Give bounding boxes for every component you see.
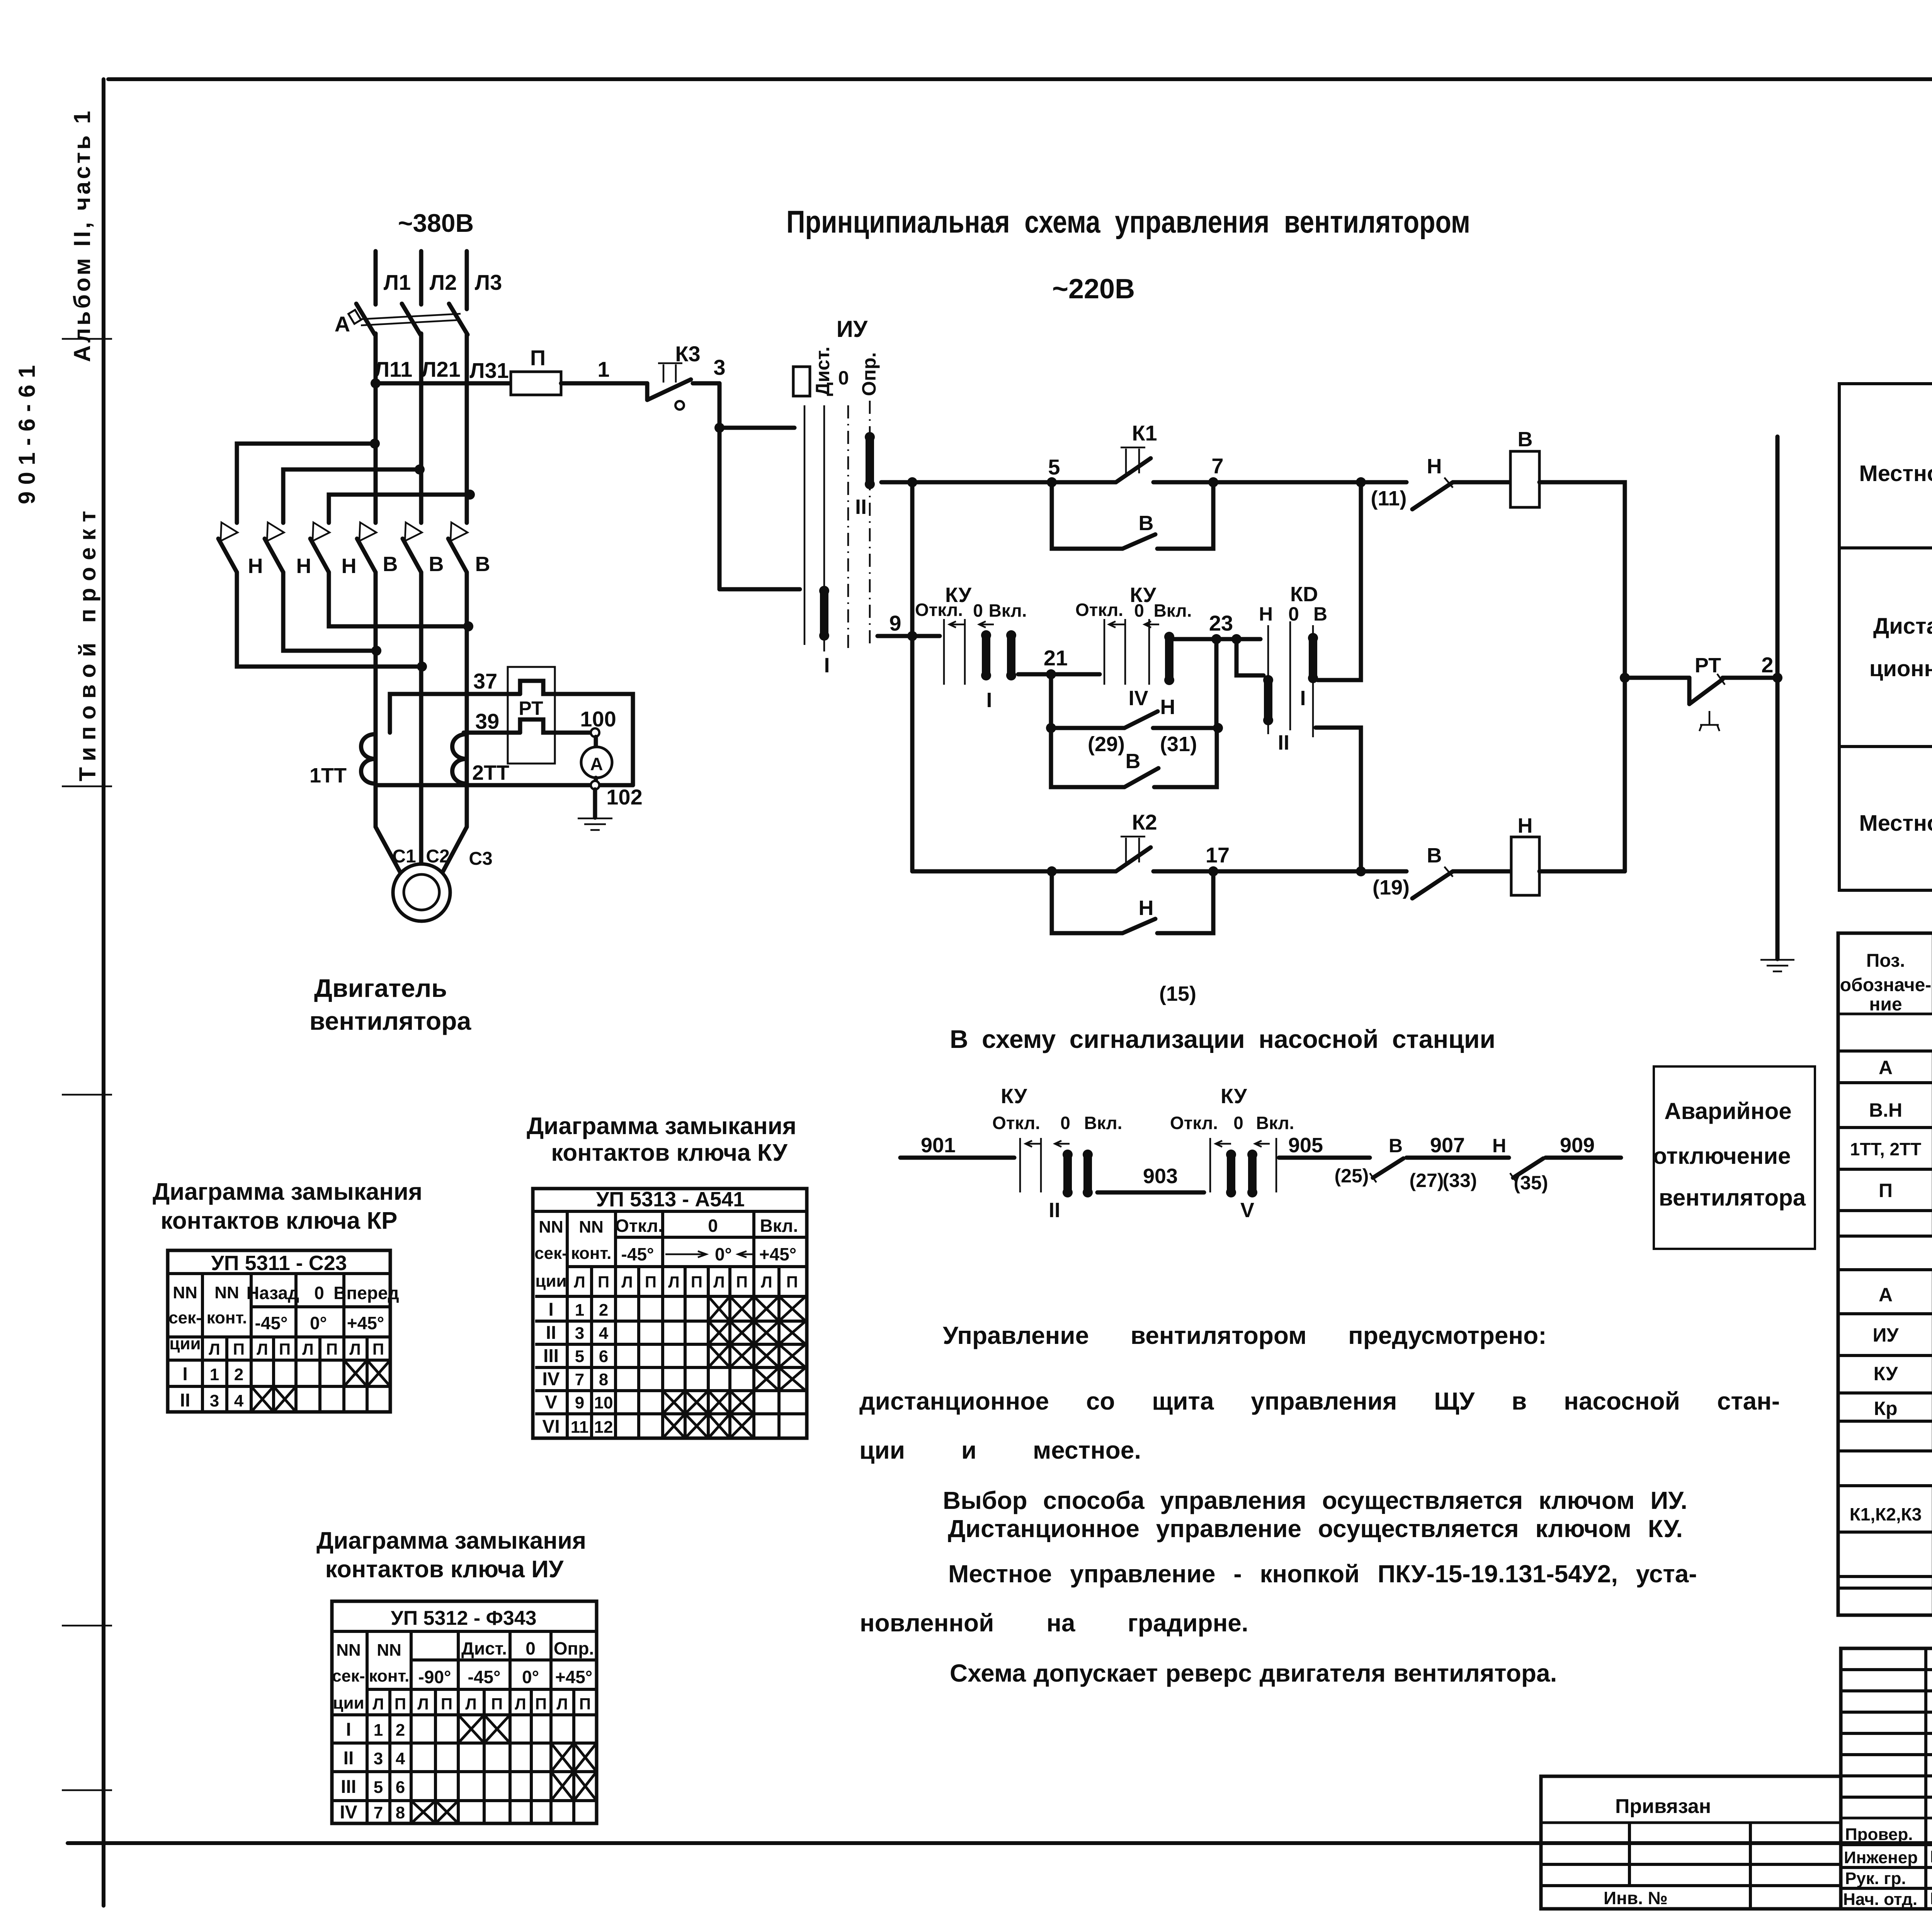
contact H interlock (11) bbox=[1412, 478, 1453, 509]
switch KR (KD) section bbox=[1259, 583, 1327, 754]
svg-text:Н: Н bbox=[1492, 1135, 1506, 1156]
wire 39 secondary bbox=[464, 731, 520, 735]
svg-text:0: 0 bbox=[708, 1216, 718, 1236]
svg-text:КУ: КУ bbox=[1221, 1085, 1247, 1108]
svg-text:В: В bbox=[429, 553, 444, 576]
svg-text:I: I bbox=[824, 654, 830, 677]
svg-text:УП 5313 - А541: УП 5313 - А541 bbox=[596, 1188, 745, 1211]
svg-text:Схема допускает реверс двигате: Схема допускает реверс двигателя вентиля… bbox=[950, 1659, 1557, 1687]
table control-mode outer box bbox=[1839, 384, 1932, 890]
svg-text:V: V bbox=[545, 1392, 557, 1413]
switch signal g1 bar 1 bbox=[1063, 1150, 1073, 1197]
svg-text:102: 102 bbox=[606, 785, 642, 809]
switch KU signal group II bbox=[992, 1085, 1122, 1222]
svg-text:Двигатель: Двигатель bbox=[314, 974, 447, 1002]
svg-text:21: 21 bbox=[1044, 646, 1068, 670]
svg-text:Аварийное: Аварийное bbox=[1664, 1098, 1791, 1124]
tick mark left margin 5 bbox=[62, 1789, 112, 1791]
svg-text:9: 9 bbox=[575, 1393, 584, 1412]
svg-text:II: II bbox=[344, 1748, 354, 1769]
svg-text:контактов ключа ИУ: контактов ключа ИУ bbox=[325, 1556, 564, 1583]
svg-text:Выбор способа управления осуще: Выбор способа управления осуществляется … bbox=[943, 1486, 1687, 1514]
svg-text:Опр.: Опр. bbox=[554, 1638, 594, 1658]
wire: drawing frame left border bbox=[102, 79, 105, 1906]
wire: drawing frame bottom border bbox=[68, 1841, 1932, 1845]
breaker A trip element bbox=[349, 310, 361, 324]
wire H self-hold branch bbox=[1052, 871, 1213, 933]
relay RT heater element lower bbox=[520, 719, 555, 733]
svg-text:4: 4 bbox=[234, 1391, 244, 1410]
junction left bus top bbox=[907, 477, 917, 487]
svg-text:В схему сигнализации насосной: В схему сигнализации насосной станции bbox=[950, 1025, 1495, 1053]
contactor K1 main contact bbox=[1116, 447, 1151, 482]
svg-text:0: 0 bbox=[314, 1283, 324, 1303]
wire to B coil bbox=[1453, 480, 1510, 485]
relay RT box bbox=[508, 667, 555, 764]
svg-text:сек-: сек- bbox=[168, 1308, 202, 1327]
wire motor lead column 2 bbox=[419, 572, 423, 865]
junction on phase 1 at control tap bbox=[371, 378, 381, 388]
svg-text:дистанционное со щита управлен: дистанционное со щита управления ЩУ в на… bbox=[859, 1387, 1780, 1415]
wire motor lead column 3 bbox=[465, 572, 469, 827]
svg-text:КУ: КУ bbox=[1874, 1363, 1898, 1384]
junction node 21 bbox=[1046, 669, 1056, 679]
svg-text:контактов ключа КУ: контактов ключа КУ bbox=[551, 1139, 788, 1166]
svg-text:Л: Л bbox=[668, 1273, 679, 1291]
svg-text:12: 12 bbox=[594, 1418, 613, 1437]
wire number 9 line bbox=[878, 634, 940, 638]
wire: drawing frame top border bbox=[108, 77, 1932, 81]
svg-text:0: 0 bbox=[1060, 1113, 1070, 1133]
switch IU contact bar II bbox=[865, 432, 875, 489]
wire N3 supply cross link bbox=[329, 495, 470, 523]
svg-text:1: 1 bbox=[575, 1301, 584, 1320]
svg-text:Н: Н bbox=[1518, 814, 1533, 837]
svg-text:3: 3 bbox=[210, 1391, 219, 1410]
svg-text:Привязан: Привязан bbox=[1615, 1795, 1711, 1818]
svg-text:сек-: сек- bbox=[332, 1667, 365, 1685]
svg-text:Опр.: Опр. bbox=[858, 352, 880, 396]
wire ammeter top bbox=[594, 737, 598, 747]
svg-text:Диаграмма замыкания: Диаграмма замыкания bbox=[316, 1527, 586, 1554]
wire H pole 2 load side bbox=[283, 572, 376, 651]
wire select line B lower bbox=[1051, 728, 1217, 787]
svg-text:II: II bbox=[1049, 1199, 1060, 1222]
svg-text:РТ: РТ bbox=[1695, 654, 1721, 677]
svg-text:вентилятора: вентилятора bbox=[1659, 1185, 1806, 1211]
wire down from node 3 bbox=[718, 383, 722, 589]
wire control branch top bbox=[881, 480, 1116, 485]
svg-text:-45°: -45° bbox=[621, 1244, 654, 1264]
svg-text:П: П bbox=[598, 1273, 609, 1291]
svg-text:Н: Н bbox=[1139, 896, 1154, 920]
contact B interlock (19) bbox=[1412, 867, 1453, 898]
svg-text:ции: ции bbox=[333, 1694, 364, 1713]
svg-text:Л: Л bbox=[257, 1340, 268, 1358]
wire 37 to loop right bbox=[555, 694, 633, 785]
svg-text:(15): (15) bbox=[1159, 982, 1196, 1005]
svg-text:VI: VI bbox=[542, 1417, 560, 1437]
svg-text:NN: NN bbox=[377, 1641, 401, 1660]
wire 102 bottom loop bbox=[376, 783, 633, 787]
svg-text:КУ: КУ bbox=[1001, 1085, 1027, 1108]
svg-text:Назад: Назад bbox=[247, 1283, 299, 1303]
table parts list bbox=[1838, 933, 1932, 1615]
wire from select up to 23 line bbox=[1214, 639, 1219, 728]
svg-text:(29): (29) bbox=[1088, 733, 1125, 756]
svg-text:Л3: Л3 bbox=[475, 270, 502, 294]
svg-text:П: П bbox=[491, 1695, 503, 1713]
svg-text:~220В: ~220В bbox=[1052, 274, 1135, 304]
wire stub bottom to IU bbox=[719, 587, 800, 592]
svg-text:К1,К2,К3: К1,К2,К3 bbox=[1850, 1504, 1922, 1524]
wire 901 bbox=[900, 1156, 1014, 1160]
svg-text:новленной на градирне.: новленной на градирне. bbox=[860, 1609, 1248, 1637]
switch IU rail line 3 (dash-dot) bbox=[847, 405, 849, 651]
wire phase L3 incoming bbox=[465, 251, 469, 309]
table title block outer bbox=[1841, 1648, 1932, 1909]
svg-text:905: 905 bbox=[1288, 1134, 1323, 1157]
svg-text:Л: Л bbox=[574, 1273, 585, 1291]
svg-text:П: П bbox=[326, 1340, 338, 1358]
wire jog to KR H bar bbox=[1236, 639, 1264, 675]
svg-text:Вкл.: Вкл. bbox=[989, 600, 1027, 621]
contact B auxiliary (self hold) bbox=[1122, 534, 1155, 549]
emergency shutdown box bbox=[1654, 1066, 1815, 1249]
svg-text:17: 17 bbox=[1206, 843, 1230, 867]
junction N3 supply on phase3 bbox=[465, 490, 475, 500]
svg-text:(35): (35) bbox=[1514, 1172, 1548, 1194]
svg-text:П: П bbox=[1879, 1180, 1893, 1201]
svg-text:В: В bbox=[1126, 750, 1141, 773]
svg-text:Л: Л bbox=[621, 1273, 633, 1291]
svg-text:Н: Н bbox=[1259, 603, 1273, 625]
svg-text:Рук. гр.: Рук. гр. bbox=[1845, 1869, 1906, 1888]
svg-text:В: В bbox=[1313, 603, 1327, 625]
switch KU group 2 bbox=[1075, 583, 1192, 710]
switch IU rail line 4 (dash-dot) bbox=[869, 401, 871, 647]
switch IU rail line 1 bbox=[804, 405, 806, 645]
svg-text:IV: IV bbox=[340, 1802, 357, 1823]
contactor B blade pole 1 bbox=[357, 539, 376, 572]
svg-text:NN: NN bbox=[579, 1218, 604, 1236]
svg-text:А: А bbox=[590, 754, 603, 774]
svg-text:П: П bbox=[441, 1695, 452, 1713]
switch KU group 1 bbox=[915, 583, 1027, 712]
wire left control bus bbox=[910, 482, 915, 871]
svg-text:7: 7 bbox=[374, 1803, 383, 1822]
svg-text:П: П bbox=[691, 1273, 702, 1291]
svg-text:Управление вентилятором пред: Управление вентилятором предусмотрено: bbox=[943, 1321, 1547, 1349]
wire 39 to terminal 100 bbox=[555, 731, 592, 735]
junction on node-3 drop bbox=[714, 423, 724, 433]
wire 903 bbox=[1097, 1190, 1204, 1195]
switch KU g1 arrow 1 bbox=[949, 621, 966, 628]
svg-text:К1: К1 bbox=[1132, 421, 1157, 445]
svg-text:2: 2 bbox=[599, 1301, 608, 1320]
svg-text:Л: Л bbox=[556, 1695, 568, 1713]
svg-text:Л: Л bbox=[209, 1340, 220, 1358]
svg-text:Л: Л bbox=[761, 1273, 772, 1291]
svg-text:903: 903 bbox=[1143, 1165, 1178, 1188]
switch KU g1 arrow 2 bbox=[979, 621, 994, 628]
junction right drop at node 2 line bbox=[1620, 673, 1630, 683]
switch signal g1 rail 2 bbox=[1040, 1138, 1042, 1192]
svg-text:отключение: отключение bbox=[1653, 1143, 1791, 1169]
svg-text:0: 0 bbox=[1134, 600, 1144, 621]
switch signal g2 rail 2 bbox=[1276, 1138, 1277, 1192]
switch signal g2 bar 1 bbox=[1226, 1150, 1236, 1197]
junction N2 supply on phase2 bbox=[415, 464, 425, 474]
svg-text:IV: IV bbox=[542, 1369, 560, 1389]
svg-text:В: В bbox=[1518, 428, 1533, 451]
svg-text:NN: NN bbox=[539, 1218, 563, 1236]
svg-text:Н: Н bbox=[1160, 696, 1175, 719]
svg-text:23: 23 bbox=[1209, 611, 1233, 635]
switch signal g1 bar 2 bbox=[1083, 1150, 1093, 1197]
svg-text:В: В bbox=[1427, 844, 1442, 867]
svg-text:К3: К3 bbox=[675, 342, 700, 366]
svg-text:Нач. отд.: Нач. отд. bbox=[1843, 1890, 1917, 1909]
svg-text:3: 3 bbox=[374, 1749, 383, 1768]
switch signal g1 arrow 2 bbox=[1055, 1141, 1070, 1147]
svg-text:Л21: Л21 bbox=[421, 357, 461, 381]
svg-text:(31): (31) bbox=[1160, 733, 1197, 756]
svg-text:Альбом II, часть 1: Альбом II, часть 1 bbox=[69, 111, 95, 362]
svg-text:0: 0 bbox=[973, 600, 983, 621]
wire motor lead 1 diagonal bbox=[376, 827, 400, 872]
svg-text:А: А bbox=[1879, 1284, 1893, 1306]
junction at select line left bbox=[1046, 723, 1056, 733]
svg-text:Н: Н bbox=[342, 554, 357, 578]
junction node 7 bbox=[1208, 477, 1218, 487]
svg-text:П: П bbox=[530, 345, 546, 370]
svg-text:0°: 0° bbox=[310, 1313, 327, 1333]
wire control feed line 1 bbox=[376, 381, 511, 386]
wire to H coil bbox=[1453, 869, 1511, 874]
wire 907 bbox=[1406, 1156, 1509, 1160]
switch KU g2 contact bar IV bbox=[1164, 632, 1174, 685]
switch KR rail H bbox=[1267, 625, 1269, 734]
svg-text:ИУ: ИУ bbox=[1872, 1324, 1899, 1346]
svg-text:П: П bbox=[736, 1273, 748, 1291]
ground symbol neutral bbox=[1760, 960, 1794, 971]
coil H bbox=[1511, 837, 1539, 895]
svg-text:NN: NN bbox=[173, 1283, 197, 1302]
switch KR contact bar H (section II) bbox=[1263, 675, 1273, 725]
wire 909 bbox=[1546, 1156, 1621, 1160]
svg-text:Инв. №: Инв. № bbox=[1604, 1888, 1668, 1908]
svg-text:Вкл.: Вкл. bbox=[1084, 1113, 1122, 1133]
svg-text:901: 901 bbox=[921, 1134, 956, 1157]
svg-text:Откл.: Откл. bbox=[992, 1113, 1040, 1133]
svg-text:Л: Л bbox=[417, 1695, 429, 1713]
svg-text:К2: К2 bbox=[1132, 810, 1157, 834]
svg-text:Попловская: Попловская bbox=[1930, 1847, 1932, 1866]
svg-text:Л: Л bbox=[349, 1340, 361, 1358]
wire branch bottom after K2 bbox=[1153, 869, 1406, 874]
wire node21 down to H/B selects bbox=[1049, 674, 1053, 728]
switch KU g1 rail 2 bbox=[964, 619, 966, 685]
svg-text:П: П bbox=[535, 1695, 547, 1713]
svg-text:В.Н: В.Н bbox=[1869, 1099, 1902, 1121]
svg-text:6: 6 bbox=[396, 1778, 405, 1797]
wire ammeter bottom bbox=[594, 778, 598, 781]
svg-text:II: II bbox=[180, 1390, 190, 1411]
wire stub to IU contact I feed bbox=[719, 426, 794, 430]
wire H pole 1 load side bbox=[237, 572, 422, 667]
junction H3 load on phase3 column bbox=[463, 621, 473, 631]
breaker A linkage bar bbox=[361, 314, 461, 325]
svg-text:8: 8 bbox=[599, 1370, 608, 1389]
junction N1 supply on phase1 bbox=[370, 439, 380, 449]
svg-text:(27): (27) bbox=[1410, 1170, 1444, 1191]
svg-text:II: II bbox=[855, 495, 867, 519]
svg-text:Дистанционное управление осуще: Дистанционное управление осуществляется … bbox=[948, 1515, 1683, 1543]
contactor B blade pole 2 bbox=[403, 539, 421, 572]
svg-text:7: 7 bbox=[1211, 454, 1223, 478]
wire node 2 line right bbox=[1723, 676, 1777, 680]
svg-text:конт.: конт. bbox=[369, 1667, 410, 1685]
svg-text:Н: Н bbox=[1427, 455, 1442, 478]
contact H select (29)-(31) bbox=[1124, 711, 1158, 728]
svg-text:0: 0 bbox=[1233, 1113, 1243, 1133]
junction H2 load on phase1 column bbox=[371, 646, 381, 656]
table control-mode row separator 1 bbox=[1839, 546, 1932, 549]
svg-text:А: А bbox=[1879, 1057, 1893, 1078]
svg-text:5: 5 bbox=[575, 1347, 584, 1366]
contact fixed terminals (arrow chevrons) for six poles bbox=[221, 522, 468, 541]
switch signal g2 arrow 2 bbox=[1255, 1141, 1270, 1147]
contact RT thermal bbox=[1689, 674, 1725, 731]
switch signal g2 bar 2 bbox=[1247, 1150, 1257, 1197]
junction at select line right bbox=[1213, 723, 1223, 733]
svg-text:В: В bbox=[475, 553, 490, 576]
table privyazan box bbox=[1541, 1776, 1841, 1909]
svg-text:Л: Л bbox=[372, 1695, 384, 1713]
motor M outer circle bbox=[393, 864, 450, 921]
svg-text:7: 7 bbox=[575, 1370, 584, 1389]
svg-text:Местное управление - кнопкой П: Местное управление - кнопкой ПКУ-15-19.1… bbox=[948, 1560, 1697, 1588]
wire control branch bottom K2 bbox=[912, 869, 1116, 874]
junction at (11) node bbox=[1356, 477, 1366, 487]
svg-text:Н: Н bbox=[248, 554, 263, 578]
svg-text:10: 10 bbox=[594, 1393, 613, 1412]
wire after K3 bbox=[693, 381, 719, 386]
ammeter A bbox=[581, 747, 612, 778]
svg-text:Л2: Л2 bbox=[430, 270, 457, 294]
svg-text:Кр: Кр bbox=[1874, 1398, 1897, 1419]
wire H coil to right drop bbox=[1539, 869, 1625, 874]
switch signal g2 rail 1 bbox=[1209, 1138, 1211, 1192]
wire phase L2 incoming bbox=[419, 251, 423, 304]
table KU diagram bbox=[533, 1188, 807, 1438]
switch KU g2 rail 1 bbox=[1104, 619, 1105, 685]
switch KR contact bar B (section I) bbox=[1308, 633, 1318, 683]
svg-text:909: 909 bbox=[1560, 1134, 1595, 1157]
table control-mode row separator 2 bbox=[1839, 745, 1932, 748]
svg-text:II: II bbox=[546, 1323, 556, 1343]
svg-text:Л1: Л1 bbox=[384, 270, 411, 294]
switch signal g1 rail 1 bbox=[1019, 1138, 1021, 1192]
svg-text:вентилятора: вентилятора bbox=[310, 1007, 472, 1035]
contact B select bbox=[1124, 768, 1158, 787]
svg-text:+45°: +45° bbox=[555, 1667, 592, 1687]
motor M inner circle bbox=[404, 874, 439, 910]
switch IU contact bar I bbox=[819, 586, 829, 641]
svg-text:П: П bbox=[372, 1340, 384, 1358]
table IU diagram bbox=[332, 1601, 597, 1823]
wire 37 secondary bbox=[390, 694, 520, 733]
svg-text:1: 1 bbox=[597, 357, 609, 381]
svg-text:0°: 0° bbox=[522, 1667, 539, 1687]
svg-text:1ТТ: 1ТТ bbox=[310, 764, 347, 787]
svg-text:(25): (25) bbox=[1335, 1165, 1369, 1187]
contact H auxiliary (self hold) bbox=[1122, 919, 1155, 933]
svg-text:2: 2 bbox=[234, 1365, 243, 1384]
svg-text:11: 11 bbox=[571, 1418, 589, 1437]
svg-text:~380В: ~380В bbox=[398, 209, 474, 237]
wire N2 supply cross link bbox=[283, 469, 420, 523]
svg-text:Местное: Местное bbox=[1859, 811, 1932, 836]
fuse P bbox=[511, 372, 561, 395]
svg-text:УП 5311 - С23: УП 5311 - С23 bbox=[211, 1252, 347, 1275]
svg-text:Дист.: Дист. bbox=[812, 347, 833, 396]
svg-text:В: В bbox=[383, 553, 398, 576]
svg-text:1ТТ, 2ТТ: 1ТТ, 2ТТ bbox=[1850, 1139, 1922, 1159]
svg-text:Инженер: Инженер bbox=[1844, 1848, 1918, 1867]
svg-text:П: П bbox=[786, 1273, 798, 1291]
wire number 21 line bbox=[1018, 672, 1100, 677]
svg-text:конт.: конт. bbox=[207, 1308, 247, 1327]
breaker A blade pole 3 bbox=[449, 304, 468, 335]
contactor B blade pole 3 bbox=[448, 539, 467, 572]
switch KU g2 arrow 2 bbox=[1145, 621, 1159, 628]
wire motor lead 3 diagonal bbox=[443, 827, 467, 872]
wire neutral bus bbox=[1776, 437, 1780, 959]
svg-text:0: 0 bbox=[838, 367, 849, 389]
svg-text:I: I bbox=[986, 689, 992, 712]
svg-text:4: 4 bbox=[599, 1324, 609, 1343]
tick mark left margin 3 bbox=[62, 1094, 112, 1096]
wire B self-hold branch bbox=[1052, 482, 1213, 549]
current transformer 2TT bbox=[452, 734, 467, 784]
svg-text:(33): (33) bbox=[1443, 1170, 1477, 1191]
relay RT heater element upper bbox=[520, 681, 555, 694]
junction bus and 9 bbox=[907, 631, 917, 641]
svg-text:Л31: Л31 bbox=[469, 358, 509, 383]
svg-text:РТ: РТ bbox=[519, 697, 543, 719]
svg-text:Диаграмма замыкания: Диаграмма замыкания bbox=[153, 1179, 422, 1205]
svg-text:1: 1 bbox=[210, 1365, 219, 1384]
svg-text:3: 3 bbox=[713, 355, 725, 379]
svg-text:В: В bbox=[1389, 1135, 1403, 1156]
svg-text:2: 2 bbox=[396, 1721, 405, 1740]
svg-text:0: 0 bbox=[526, 1638, 536, 1658]
wire phase column 2 below breaker bbox=[419, 333, 423, 523]
svg-text:В: В bbox=[1139, 512, 1154, 535]
switch signal g1 arrow 1 bbox=[1026, 1141, 1041, 1147]
switch KU g2 rail 3 bbox=[1148, 619, 1150, 685]
svg-text:Иваненко: Иваненко bbox=[1930, 1889, 1932, 1908]
svg-text:100: 100 bbox=[580, 707, 616, 731]
svg-text:П: П bbox=[233, 1340, 245, 1358]
svg-text:С1: С1 bbox=[392, 846, 416, 867]
svg-text:6: 6 bbox=[599, 1347, 608, 1366]
svg-text:Вперед: Вперед bbox=[333, 1283, 399, 1303]
svg-text:ции: ции bbox=[169, 1334, 201, 1353]
svg-text:907: 907 bbox=[1430, 1134, 1465, 1157]
